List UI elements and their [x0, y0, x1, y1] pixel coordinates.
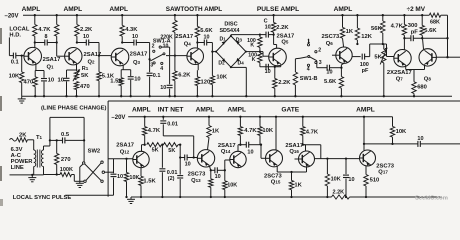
capacitor 10 (Q14 to Q15)	[240, 144, 246, 146]
svg-text:10: 10	[348, 177, 354, 183]
svg-text:2K: 2K	[19, 133, 27, 139]
svg-text:4.7K: 4.7K	[306, 129, 319, 135]
node rail junction x382.8	[382, 14, 384, 16]
resistor 68K (series in rail, top right)	[429, 13, 441, 17]
node rail junction x56.7	[56, 14, 58, 16]
transformer T1 secondary	[41, 150, 43, 167]
svg-text:DISC: DISC	[224, 21, 237, 27]
resistor 100K (phase shift)	[60, 172, 72, 176]
resistor 6.2K (Q4 base to ground)	[174, 56, 176, 71]
svg-text:2SA17: 2SA17	[285, 143, 303, 149]
svg-text:10: 10	[117, 174, 123, 180]
wire Q16 collector	[303, 144, 306, 146]
wire contact to cap 10	[161, 46, 169, 48]
svg-text:SeekIC.com: SeekIC.com	[415, 196, 448, 202]
svg-text:PULSE AMPL: PULSE AMPL	[257, 6, 299, 13]
transistor Q13 2SC73	[197, 150, 214, 167]
node rail junction x422.2	[421, 14, 423, 16]
capacitor 10 (Q13 to Q14)	[211, 169, 215, 171]
node rail junction x260	[259, 116, 261, 118]
transistor Q2 2SA17	[65, 48, 82, 65]
svg-text:10K: 10K	[216, 74, 227, 80]
wire Q6 collector output	[352, 56, 361, 58]
ground (top section)	[21, 96, 23, 99]
svg-text:10: 10	[204, 35, 210, 41]
svg-text:680: 680	[417, 84, 427, 90]
svg-text:K: K	[250, 43, 254, 49]
capacitor 10 (Q5 emitter to disc)	[265, 64, 267, 70]
node rail junction x197.4	[196, 14, 198, 16]
node rail junction x122.2	[121, 14, 123, 16]
wire secondary bottom	[43, 167, 45, 175]
resistor 10K (output decouple)	[390, 126, 394, 137]
svg-text:2X2SA17: 2X2SA17	[387, 70, 412, 76]
capacitor 10 (Q3 coupling to SW1-A)	[122, 42, 134, 44]
wire Q12 collector	[142, 144, 145, 146]
svg-text:–20V: –20V	[111, 115, 125, 121]
SW2 to ground lever	[80, 164, 83, 167]
capacitor 10 (Q17 base)	[345, 157, 347, 159]
svg-text:H.D.: H.D.	[9, 33, 21, 39]
diode D4	[236, 58, 240, 62]
wire Q1 emitter	[35, 63, 37, 70]
potentiometer 5K (sync level)	[383, 44, 385, 49]
svg-text:2.2K: 2.2K	[278, 80, 291, 86]
svg-text:5K: 5K	[374, 54, 382, 60]
svg-text:SW1-B: SW1-B	[300, 76, 318, 82]
diode D3	[236, 41, 240, 45]
svg-text:0.5: 0.5	[61, 132, 70, 138]
node rail junction x273.6	[272, 14, 274, 16]
svg-text:2SA17: 2SA17	[175, 34, 193, 40]
wire Q14 base	[224, 160, 226, 170]
svg-text:pF: pF	[362, 68, 369, 74]
capacitor 10 (timing, SW1-A)	[167, 84, 173, 86]
wire Q6 emitter net	[340, 65, 342, 68]
ground (power line)	[31, 175, 33, 178]
svg-text:2SC73: 2SC73	[188, 171, 207, 177]
wire Q14 collector	[237, 145, 239, 152]
svg-text:AMPL: AMPL	[63, 6, 82, 13]
svg-text:0.01: 0.01	[167, 122, 178, 128]
resistor 10K (disc input)	[210, 76, 214, 85]
resistor 2.2K (series in ground rail)	[332, 195, 350, 199]
capacitor 10 (Q1 emitter bypass)	[43, 71, 45, 78]
node Q16 collector	[302, 144, 304, 146]
svg-text:470: 470	[80, 84, 90, 90]
node Q7 collector / 300pF	[403, 37, 405, 39]
ac source squiggle	[10, 139, 17, 142]
svg-text:5.6K: 5.6K	[424, 28, 437, 34]
svg-text:AMPL: AMPL	[356, 107, 375, 114]
svg-text:5.6K: 5.6K	[200, 28, 213, 34]
wire Q6 base stub	[332, 54, 336, 56]
svg-text:2.2K: 2.2K	[333, 190, 345, 196]
wire Q8 collector to right edge output	[446, 56, 448, 58]
wire Q2 base	[56, 43, 58, 57]
wire Q1 collector to coupling cap	[34, 43, 36, 49]
wire Q15 collector to rail	[275, 116, 277, 118]
capacitor 10 (Q4 coupling to disc)	[197, 42, 204, 44]
capacitor C 10 (to Q5 collector)	[260, 34, 266, 36]
node Q13 base tap	[179, 156, 181, 158]
node rail junction x209	[208, 116, 210, 118]
svg-text:(LINE PHASE CHANGE): (LINE PHASE CHANGE)	[41, 106, 106, 112]
SW2 cross lines	[85, 164, 101, 180]
node rail junction x144.7	[144, 116, 146, 118]
svg-text:5K: 5K	[168, 148, 175, 154]
box bottom section border	[108, 100, 460, 102]
node rail junction x342.5	[341, 14, 343, 16]
capacitor 10 (Q2 emitter bypass)	[66, 70, 68, 78]
resistor 10K (Q14 base bias)	[224, 170, 226, 181]
wire int net top	[163, 135, 193, 137]
node output net	[391, 143, 393, 145]
node rail junction x174.9	[174, 14, 176, 16]
resistor 56K	[382, 15, 384, 21]
resistor 4.7K (Q14 collector load)	[239, 117, 241, 127]
ground (SW2)	[76, 182, 84, 184]
svg-text:10: 10	[160, 85, 166, 91]
svg-text:4.3K: 4.3K	[125, 27, 138, 33]
svg-text:–20V: –20V	[5, 14, 19, 20]
capacitor 0.01 second (int net)	[179, 145, 181, 175]
wire Q13 emitter	[209, 165, 211, 170]
ground (bottom section)	[130, 197, 132, 199]
node Q2 collector	[76, 41, 78, 43]
wire local sync pulse	[65, 194, 113, 196]
resistor 4.7K (Q3 collector load)	[121, 15, 123, 25]
SW2 contact MR	[102, 171, 104, 173]
svg-text:10: 10	[326, 70, 332, 76]
transistor Q5 2SA17	[269, 48, 287, 66]
resistor 220K (Q4 base bias)	[174, 15, 176, 20]
svg-text:2SA17: 2SA17	[43, 57, 61, 63]
svg-text:10: 10	[132, 34, 138, 40]
svg-text:10: 10	[215, 174, 221, 180]
svg-text:10K: 10K	[227, 182, 237, 188]
svg-text:470: 470	[24, 79, 34, 85]
SW1-B contact 4	[307, 64, 309, 66]
node Q2 base net	[56, 41, 58, 43]
svg-text:10K: 10K	[331, 177, 341, 183]
svg-text:4.7K: 4.7K	[38, 27, 51, 33]
svg-text:12K: 12K	[361, 34, 372, 40]
svg-text:10: 10	[185, 161, 191, 167]
capacitor 10 (sync into Q12 base)	[113, 159, 115, 173]
transistor Q14 2SA17	[230, 151, 246, 167]
resistor 5.1K (Q3 base bias)	[98, 56, 100, 72]
transistor Q15 2SC73	[266, 150, 283, 167]
wire top-section ground rail	[22, 95, 452, 97]
wire input drop	[8, 37, 10, 55]
capacitor 8 (Q1-Q2 coupling)	[35, 42, 45, 44]
svg-text:1.5K: 1.5K	[143, 179, 156, 185]
wire output net	[364, 143, 393, 145]
node secondary / phase net	[49, 139, 51, 141]
wire bridge bottom to ground rail	[230, 66, 232, 68]
svg-text:10: 10	[58, 78, 64, 84]
wire SW1-A to Q4 base	[166, 55, 187, 57]
resistor 1K (gate emitter common)	[291, 172, 293, 181]
svg-text:10K: 10K	[129, 175, 139, 181]
wire bridge top net	[230, 35, 232, 36]
svg-text:10: 10	[48, 78, 54, 84]
node int net feedback	[193, 156, 195, 158]
svg-text:100K: 100K	[60, 167, 73, 173]
SW2 contact TR	[101, 161, 103, 163]
resistor 10K (Q12 base bias)	[125, 158, 127, 160]
resistor 2.2K (Q5 emitter)	[274, 67, 276, 79]
resistor 5.6K (Q6 emitter)	[340, 68, 342, 77]
wire bottom section ground rail (left)	[131, 196, 332, 198]
resistor 5.6K (Q8 collector load)	[421, 15, 423, 25]
svg-text:5.6K: 5.6K	[324, 79, 337, 85]
resistor 12K	[356, 15, 358, 28]
wire top -20V supply rail	[23, 14, 429, 16]
svg-text:10K: 10K	[396, 129, 407, 135]
SW2 contact TL	[83, 162, 85, 164]
svg-text:LOCAL SYNC PULSE: LOCAL SYNC PULSE	[13, 195, 72, 201]
node Q8 collector / 300pF	[421, 37, 423, 39]
svg-text:SD54X4: SD54X4	[219, 28, 239, 34]
svg-text:10K: 10K	[262, 128, 273, 134]
svg-text:56K: 56K	[371, 26, 382, 32]
wire Q17 collector to rail	[363, 116, 365, 118]
resistor 4.7K (Q12 collector load)	[144, 117, 146, 127]
svg-text:10: 10	[265, 69, 271, 75]
node Q5 collector net / cap C	[272, 33, 274, 35]
svg-text:1.5K: 1.5K	[110, 79, 123, 85]
wire SW2 output	[105, 171, 114, 173]
resistor 680 (emitter common)	[412, 82, 416, 94]
transistor Q8 2SA17	[419, 49, 436, 66]
wire gate output	[303, 144, 321, 146]
node Q15 base net	[260, 144, 262, 146]
wire secondary top loop	[43, 146, 45, 150]
wire bottom -20V rail	[128, 116, 392, 118]
svg-text:2SC73: 2SC73	[376, 163, 395, 169]
resistor (Q13 emitter)	[210, 170, 212, 179]
node junction 300pF line / right wire	[446, 37, 448, 39]
svg-text:3: 3	[319, 60, 322, 66]
svg-text:÷2 MV: ÷2 MV	[407, 6, 426, 13]
node 270 tap	[56, 139, 58, 141]
svg-text:2SA17: 2SA17	[116, 143, 134, 149]
resistor 120 (Q4 emitter)	[195, 77, 199, 86]
resistor 1.5K (Q12 emitter)	[140, 168, 142, 177]
resistor 4.7K (Q7 collector load)	[403, 15, 405, 24]
SW1-A contact 4	[161, 62, 163, 64]
node Q14 collector	[239, 144, 241, 146]
svg-text:2: 2	[318, 47, 321, 53]
svg-text:0.1: 0.1	[11, 59, 20, 65]
transistor Q12 2SA17	[133, 151, 149, 167]
potentiometer R1 5K (Q2 emitter gain)	[76, 69, 78, 72]
svg-text:K: K	[252, 57, 256, 63]
wire primary return	[33, 167, 35, 175]
node rail junction x357.4	[356, 14, 358, 16]
capacitor 0.1 (input coupling)	[9, 55, 13, 57]
resistor 5K (int net, second)	[163, 143, 178, 147]
node Q4 base	[174, 54, 176, 56]
svg-text:6.2K: 6.2K	[178, 73, 191, 79]
svg-text:2SC73: 2SC73	[322, 34, 341, 40]
resistor 10K (gate bias)	[259, 117, 261, 127]
svg-text:100: 100	[360, 62, 369, 68]
wire Q5 emitter	[280, 64, 282, 67]
wire Q3 base net	[98, 43, 100, 56]
capacitor 10 (output coupling)	[417, 141, 419, 147]
wire Q5 collector	[274, 44, 277, 46]
svg-text:120: 120	[201, 79, 211, 85]
capacitor 10 (Q3 emitter bypass)	[130, 70, 132, 76]
svg-text:10: 10	[247, 150, 253, 156]
svg-text:AMPL: AMPL	[334, 6, 353, 13]
capacitor 10 (sync to Q6)	[316, 61, 318, 68]
capacitor 0.5 (phase shift)	[50, 139, 63, 141]
wire Q8 base from feedback	[436, 56, 447, 58]
wire 100K to SW2	[72, 174, 75, 176]
capacitor 10 (Q2-Q3 coupling)	[77, 42, 86, 44]
svg-text:AMPL: AMPL	[109, 6, 128, 13]
resistor 5.6K (Q4 collector load)	[196, 15, 198, 26]
capacitor 100pF (to divider)	[361, 54, 363, 60]
svg-text:0.1: 0.1	[153, 73, 161, 79]
resistor 1K (Q13 collector load)	[208, 117, 210, 126]
resistor 2K (line series)	[17, 138, 28, 142]
wire Q4 collector	[196, 43, 198, 49]
svg-text:AMPL: AMPL	[132, 107, 151, 114]
node bridge output	[259, 50, 261, 52]
SW1-B wiper	[308, 56, 310, 58]
wire int net to Q13	[178, 144, 180, 146]
svg-text:AMPL: AMPL	[196, 107, 215, 114]
resistor 1K (Q6 collector load)	[342, 15, 344, 27]
wire Q4 emitter	[197, 63, 199, 70]
transistor Q6 2SC73	[336, 47, 352, 63]
svg-text:10: 10	[417, 136, 423, 142]
transistor Q17 2SC73	[360, 150, 376, 166]
svg-text:4.7K: 4.7K	[244, 128, 257, 134]
svg-text:SW2: SW2	[88, 148, 101, 154]
SW2 contact BR	[101, 180, 103, 182]
resistor 10K (Q17 base)	[326, 157, 328, 159]
diode D1	[222, 41, 226, 45]
node Q1 collector	[34, 41, 36, 43]
node rail junction x76.9	[76, 14, 78, 16]
SW2 contact BL	[84, 180, 86, 182]
transistor Q1 2SA17	[24, 47, 42, 65]
node rail junction x302.8	[302, 116, 304, 118]
wire Q7/Q8 emitters common	[405, 65, 407, 69]
svg-text:1K: 1K	[346, 29, 354, 35]
node SW1-A wiper tap	[148, 58, 150, 60]
wire Q16 base stub	[295, 158, 299, 160]
resistor 510 (Q17 emitter)	[365, 166, 367, 175]
wire Q15 base	[260, 145, 262, 159]
svg-text:2SA17: 2SA17	[130, 52, 148, 58]
wire Q15 emitter	[276, 166, 278, 172]
wire Q5 base	[260, 51, 263, 53]
svg-text:4.7K: 4.7K	[391, 23, 404, 29]
transistor Q16 2SA17	[299, 151, 315, 167]
resistor 470 (Q2 emitter)	[74, 82, 78, 90]
svg-text:300: 300	[408, 23, 418, 29]
svg-text:68K: 68K	[430, 19, 440, 25]
wire to transformer primary	[27, 139, 33, 141]
resistor 1.5K (Q3 emitter)	[119, 78, 123, 86]
transistor Q4 2SA17	[187, 48, 204, 65]
diode D2	[222, 58, 226, 62]
svg-text:(2): (2)	[168, 176, 175, 182]
transformer T1 core	[36, 150, 38, 168]
capacitor 0.1 (timing, SW1-A)	[147, 72, 153, 74]
capacitor 0.01 (from rail)	[162, 116, 164, 118]
resistor 2.2K (Q2 collector load)	[76, 15, 78, 24]
node rail junction x404.4	[403, 14, 405, 16]
svg-text:LINE: LINE	[11, 165, 24, 171]
svg-text:2SA17: 2SA17	[218, 143, 236, 149]
wire sawtooth timing net vertical	[149, 43, 151, 73]
wire Q3 emitter	[122, 65, 124, 70]
svg-text:GATE: GATE	[281, 107, 299, 114]
svg-text:270: 270	[61, 157, 71, 163]
node Q12 collector	[144, 144, 146, 146]
node Q3 collector	[121, 41, 123, 43]
resistor 100K (lower)	[259, 52, 261, 53]
resistor 4.7K (Q1 collector load)	[34, 15, 36, 24]
svg-text:10: 10	[83, 34, 89, 40]
svg-text:4: 4	[307, 67, 310, 73]
svg-text:2.2K: 2.2K	[80, 27, 93, 33]
resistor (Q2 base bias from rail)	[56, 15, 58, 24]
svg-text:10: 10	[265, 24, 271, 30]
wire Q12 base	[108, 158, 133, 160]
svg-text:510: 510	[370, 178, 380, 184]
resistor 5K (int net, first)	[147, 143, 162, 147]
capacitor 300pF (multivibrator cross-coupling)	[404, 37, 410, 39]
svg-text:10: 10	[134, 77, 140, 83]
wire Q2 emitter	[76, 63, 78, 70]
svg-text:8: 8	[45, 34, 48, 40]
resistor 2.2K (Q5 collector load)	[273, 15, 275, 22]
svg-text:SAWTOOTH AMPL: SAWTOOTH AMPL	[166, 6, 223, 13]
wire rail right end down to Q8 collector net	[441, 14, 448, 16]
transistor Q7 2SA17	[394, 50, 411, 67]
svg-text:10K: 10K	[9, 74, 20, 80]
svg-text:4.7K: 4.7K	[148, 128, 161, 134]
node Q4 collector	[196, 41, 198, 43]
transformer T1 primary	[34, 150, 36, 167]
resistor (SW1-B common to ground)	[294, 59, 296, 72]
SW1-A wiper lever	[150, 54, 163, 61]
svg-text:5K: 5K	[152, 147, 159, 153]
svg-text:INT NET: INT NET	[158, 107, 184, 114]
svg-text:pF: pF	[411, 30, 419, 36]
svg-text:5K: 5K	[81, 73, 89, 79]
svg-text:2.2K: 2.2K	[276, 25, 289, 31]
diode bridge diamond	[216, 36, 246, 67]
node int net junction 1	[161, 144, 163, 146]
scan edge artifacts	[0, 28, 2, 44]
wire bottom section ground rail (right)	[350, 196, 443, 198]
svg-text:1K: 1K	[212, 129, 220, 135]
svg-text:2: 2	[152, 44, 155, 50]
wire disc input net	[211, 43, 213, 76]
resistor 10K (Q1 base bias)	[21, 56, 23, 72]
svg-text:220K: 220K	[160, 34, 173, 40]
